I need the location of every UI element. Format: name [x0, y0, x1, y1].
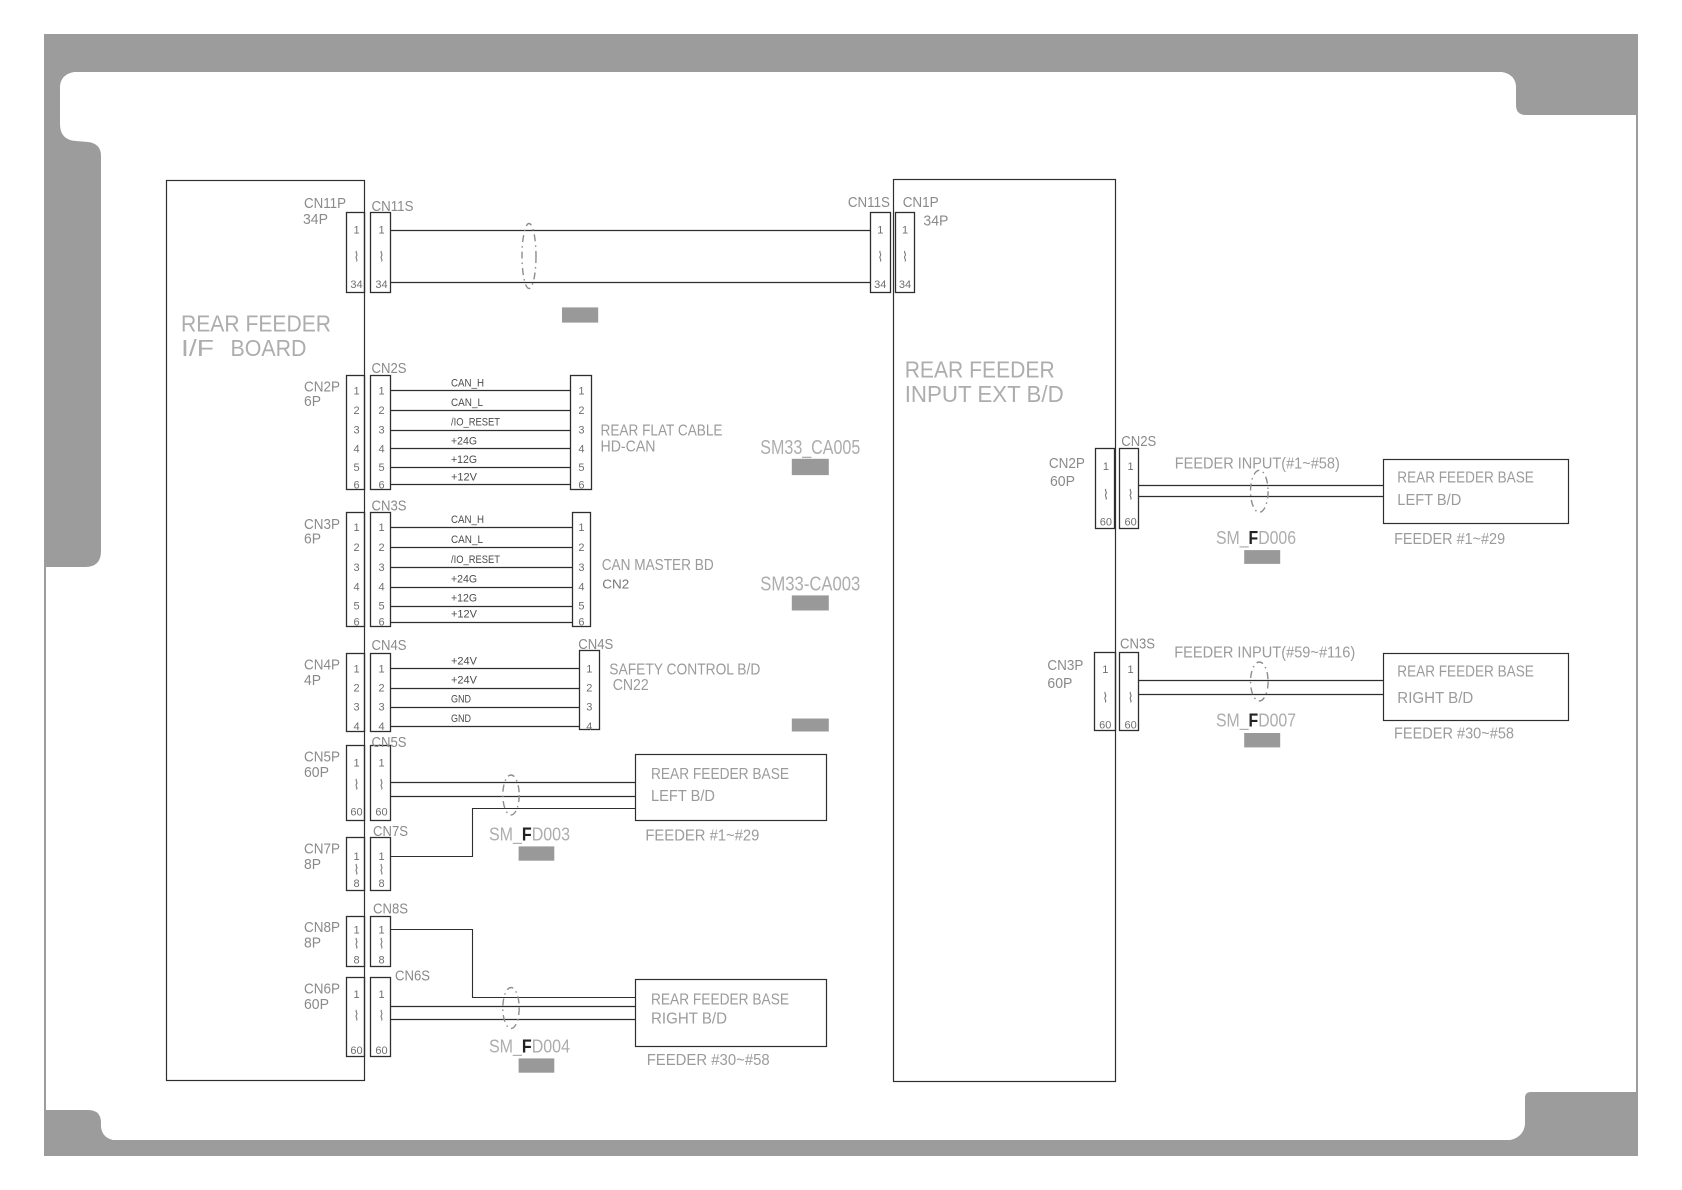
svg-text:1: 1 — [353, 385, 359, 397]
svg-text:8P: 8P — [304, 856, 321, 873]
svg-text:CN4P: CN4P — [304, 656, 340, 673]
wire CN6S bus upper — [390, 1006, 635, 1008]
svg-text:REAR FEEDER BASE: REAR FEEDER BASE — [651, 992, 789, 1009]
wire CN3S pin4 net +24G — [390, 574, 572, 588]
wire CN7S feed to left base board — [390, 809, 635, 857]
svg-text:60P: 60P — [1050, 473, 1075, 490]
wire CN2S pin2 net CAN_L — [390, 397, 571, 411]
wire CN5S bus upper — [390, 782, 635, 784]
wire CN2S pin4 net +24G — [390, 436, 571, 449]
board REAR FEEDER INPUT EXT B/D outline — [894, 180, 1116, 1082]
cable bundle marker SM_FD006 — [1251, 470, 1269, 512]
svg-text:34: 34 — [899, 279, 911, 291]
board REAR FEEDER I/F BOARD outline — [167, 181, 365, 1081]
svg-text:3: 3 — [353, 425, 359, 437]
label REAR FEEDER INPUT EXT B/D title — [905, 357, 1064, 408]
svg-text:4: 4 — [378, 444, 384, 456]
svg-text:SM33-CA003: SM33-CA003 — [760, 574, 860, 596]
svg-text:+24V: +24V — [451, 675, 478, 687]
connector CN7P (8P) — [304, 838, 365, 891]
svg-text:8P: 8P — [304, 935, 321, 952]
label REAR FEEDER I/F BOARD title — [181, 311, 331, 362]
cable bundle marker SM_FD004 — [503, 988, 519, 1029]
svg-text:4: 4 — [378, 582, 384, 594]
connector CN3S — [371, 497, 407, 628]
svg-text:60P: 60P — [304, 996, 329, 1013]
svg-text:FEEDER #1~#29: FEEDER #1~#29 — [1394, 531, 1505, 548]
svg-text:LEFT B/D: LEFT B/D — [651, 788, 715, 805]
svg-text:1: 1 — [378, 522, 384, 534]
svg-text:BOARD: BOARD — [231, 335, 307, 361]
wire CN11S pin1 - CN11S pin1 — [390, 230, 870, 232]
svg-text:HD-CAN: HD-CAN — [601, 438, 656, 455]
svg-text:+24G: +24G — [451, 574, 477, 586]
connector CN6S — [371, 967, 431, 1057]
svg-text:LEFT B/D: LEFT B/D — [1397, 492, 1461, 509]
svg-text:4: 4 — [586, 721, 592, 733]
svg-text:60P: 60P — [1047, 675, 1072, 692]
svg-text:5: 5 — [578, 601, 584, 613]
board REAR FEEDER BASE LEFT B/D box right — [1384, 460, 1569, 524]
svg-text:CN8S: CN8S — [373, 901, 408, 918]
svg-text:+12V: +12V — [451, 609, 478, 621]
wire CN2S pin5 net +12G — [390, 454, 571, 468]
svg-text:60: 60 — [375, 1045, 387, 1057]
connector CN3P (6P) — [304, 513, 365, 629]
svg-text:6: 6 — [578, 617, 584, 629]
board REAR FEEDER BASE RIGHT B/D box — [636, 980, 827, 1047]
svg-text:2: 2 — [353, 405, 359, 417]
label CAN MASTER BD / CN2 — [602, 557, 714, 592]
svg-text:3: 3 — [353, 562, 359, 574]
connector CN2P (60P) right board — [1049, 449, 1115, 529]
svg-text:REAR FLAT CABLE: REAR FLAT CABLE — [601, 422, 723, 439]
svg-text:34: 34 — [874, 279, 886, 291]
svg-text:4: 4 — [353, 582, 359, 594]
svg-text:4: 4 — [353, 721, 359, 733]
svg-text:GND: GND — [451, 694, 471, 706]
svg-text:CN2P: CN2P — [1049, 455, 1085, 472]
connector CN7S — [371, 823, 409, 891]
board REAR FEEDER BASE LEFT B/D box — [636, 755, 827, 821]
svg-text:60: 60 — [350, 1045, 362, 1057]
svg-text:INPUT EXT B/D: INPUT EXT B/D — [905, 381, 1064, 407]
svg-text:1: 1 — [1102, 664, 1108, 676]
svg-text:GND: GND — [451, 713, 471, 725]
connector CN11P (34P) left board — [303, 195, 365, 293]
wire CN4S pin4 net GND — [390, 713, 579, 727]
svg-text:CN7P: CN7P — [304, 841, 340, 858]
svg-text:6: 6 — [578, 480, 584, 492]
svg-text:5: 5 — [353, 601, 359, 613]
svg-text:60P: 60P — [304, 764, 329, 781]
svg-text:CN1P: CN1P — [903, 194, 939, 211]
svg-text:3: 3 — [378, 425, 384, 437]
svg-text:1: 1 — [353, 851, 359, 863]
svg-text:+24V: +24V — [451, 655, 478, 667]
svg-text:+12V: +12V — [451, 472, 478, 484]
svg-text:1: 1 — [1128, 461, 1134, 473]
svg-text:5: 5 — [378, 601, 384, 613]
svg-text:2: 2 — [353, 683, 359, 695]
svg-text:1: 1 — [1128, 664, 1134, 676]
svg-text:1: 1 — [902, 225, 908, 237]
svg-text:RIGHT B/D: RIGHT B/D — [651, 1011, 727, 1028]
svg-text:SM33_CA005: SM33_CA005 — [760, 437, 860, 459]
svg-text:2: 2 — [586, 683, 592, 695]
svg-text:6P: 6P — [304, 393, 321, 410]
svg-text:CAN MASTER BD: CAN MASTER BD — [602, 557, 714, 574]
connector CN4P (4P) — [304, 654, 365, 734]
connector CN3P (60P) right board — [1047, 653, 1115, 732]
svg-text:FEEDER #1~#29: FEEDER #1~#29 — [645, 827, 759, 844]
svg-text:CN3P: CN3P — [1047, 657, 1083, 674]
svg-text:60: 60 — [1100, 517, 1112, 529]
label swatch SM33-CA003 — [792, 595, 829, 610]
svg-text:3: 3 — [353, 702, 359, 714]
svg-text:1: 1 — [353, 522, 359, 534]
svg-text:CAN_L: CAN_L — [451, 534, 483, 546]
label swatch SM_FD007 — [1244, 733, 1280, 747]
label SAFETY CONTROL B/D CN22 — [609, 661, 760, 694]
wire CN5S bus lower — [390, 796, 635, 798]
svg-text:1: 1 — [378, 385, 384, 397]
label swatch safety cable — [792, 719, 829, 732]
svg-text:FEEDER INPUT(#59~#116): FEEDER INPUT(#59~#116) — [1174, 645, 1355, 662]
svg-text:CN4S: CN4S — [372, 637, 407, 654]
svg-text:1: 1 — [353, 663, 359, 675]
label swatch CN11 cable — [562, 307, 598, 322]
connector CN11S right side — [848, 194, 891, 292]
svg-text:6: 6 — [378, 617, 384, 629]
svg-text:CN5P: CN5P — [304, 748, 340, 765]
wire CN6S bus lower — [390, 1019, 635, 1021]
svg-text:1: 1 — [353, 758, 359, 770]
svg-text:2: 2 — [578, 405, 584, 417]
svg-text:1: 1 — [378, 989, 384, 1001]
svg-text:CN2S: CN2S — [372, 360, 407, 377]
svg-text:60: 60 — [1124, 720, 1136, 732]
svg-text:SM_FD004: SM_FD004 — [489, 1036, 570, 1057]
svg-text:2: 2 — [378, 683, 384, 695]
svg-text:3: 3 — [578, 425, 584, 437]
cable bundle marker SM_FD007 — [1251, 662, 1269, 701]
svg-text:8: 8 — [353, 954, 359, 966]
connector CN2P (6P) — [304, 376, 365, 492]
svg-text:CN2: CN2 — [602, 577, 629, 592]
svg-text:2: 2 — [378, 542, 384, 554]
wire CN3S pin2 net CAN_L — [390, 534, 572, 547]
svg-text:1: 1 — [586, 663, 592, 675]
svg-text:CN5S: CN5S — [372, 734, 407, 751]
connector header REAR FLAT CABLE side — [571, 376, 592, 492]
svg-text:+12G: +12G — [451, 593, 477, 605]
svg-text:CN11P: CN11P — [304, 195, 346, 212]
svg-text:CAN_H: CAN_H — [451, 514, 484, 526]
svg-text:4: 4 — [353, 444, 359, 456]
connector CN2S right board — [1120, 433, 1157, 529]
svg-text:1: 1 — [578, 522, 584, 534]
svg-text:60: 60 — [1099, 720, 1111, 732]
wire CN3S pin6 net +12V — [390, 609, 572, 623]
svg-text:SAFETY CONTROL B/D: SAFETY CONTROL B/D — [609, 661, 760, 678]
svg-text:8: 8 — [378, 954, 384, 966]
svg-text:CN6S: CN6S — [395, 967, 430, 984]
wire CN4S pin2 net +24V — [390, 675, 579, 689]
svg-text:1: 1 — [378, 924, 384, 936]
svg-text:1: 1 — [353, 225, 359, 237]
svg-text:1: 1 — [378, 758, 384, 770]
label REAR FLAT CABLE HD-CAN — [601, 422, 723, 455]
svg-text:34P: 34P — [923, 212, 948, 229]
svg-text:4: 4 — [378, 721, 384, 733]
connector CN8S — [371, 901, 409, 967]
svg-text:34: 34 — [350, 279, 362, 291]
label swatch SM_FD003 — [519, 846, 555, 860]
svg-text:CN8P: CN8P — [304, 919, 340, 936]
svg-text:+12G: +12G — [451, 454, 477, 466]
svg-text:I/F: I/F — [181, 335, 214, 361]
connector CN6P (60P) — [304, 978, 365, 1058]
svg-text:2: 2 — [378, 405, 384, 417]
svg-text:FEEDER #30~#58: FEEDER #30~#58 — [647, 1052, 770, 1069]
svg-text:1: 1 — [1103, 461, 1109, 473]
connector CN4S — [371, 637, 407, 733]
svg-text:CN3S: CN3S — [1120, 636, 1155, 653]
svg-text:FEEDER #30~#58: FEEDER #30~#58 — [1394, 725, 1514, 742]
svg-text:3: 3 — [586, 702, 592, 714]
wire CN2S pin1 net CAN_H — [390, 377, 571, 390]
svg-text:1: 1 — [353, 989, 359, 1001]
svg-text:8: 8 — [378, 878, 384, 890]
svg-text:1: 1 — [353, 924, 359, 936]
svg-text:REAR FEEDER BASE: REAR FEEDER BASE — [1397, 663, 1534, 680]
connector CN5S — [371, 734, 407, 821]
svg-text:5: 5 — [353, 462, 359, 474]
connector CN5P (60P) — [304, 746, 365, 821]
svg-text:CN3S: CN3S — [372, 497, 407, 514]
wire CN4S pin3 net GND — [390, 694, 579, 708]
svg-text:60: 60 — [350, 807, 362, 819]
svg-text:4: 4 — [578, 444, 584, 456]
svg-text:/IO_RESET: /IO_RESET — [451, 417, 500, 429]
svg-text:34: 34 — [375, 279, 387, 291]
connector CN8P (8P) — [304, 917, 365, 967]
svg-text:CN6P: CN6P — [304, 981, 340, 998]
label swatch SM_FD004 — [519, 1058, 555, 1072]
svg-text:SM_FD006: SM_FD006 — [1216, 528, 1296, 549]
svg-text:2: 2 — [353, 542, 359, 554]
svg-text:REAR FEEDER: REAR FEEDER — [905, 357, 1055, 383]
svg-text:CN2S: CN2S — [1121, 433, 1156, 450]
wire CN4S pin1 net +24V — [390, 655, 579, 668]
svg-text:CAN_L: CAN_L — [451, 397, 483, 409]
connector CN1P (34P) — [896, 194, 949, 292]
cable bundle marker SM_FD003 — [503, 775, 519, 815]
svg-text:REAR FEEDER: REAR FEEDER — [181, 311, 331, 337]
wire CN2S feeder input upper — [1139, 485, 1384, 487]
svg-text:SM_FD007: SM_FD007 — [1216, 711, 1296, 732]
svg-text:REAR FEEDER BASE: REAR FEEDER BASE — [1397, 470, 1534, 487]
svg-text:RIGHT B/D: RIGHT B/D — [1397, 690, 1473, 707]
connector CN11S left board side — [371, 198, 414, 293]
wire CN2S feeder input lower — [1139, 496, 1384, 498]
svg-text:1: 1 — [378, 663, 384, 675]
svg-text:5: 5 — [578, 462, 584, 474]
svg-text:60: 60 — [375, 807, 387, 819]
wire CN3S pin1 net CAN_H — [390, 514, 572, 528]
connector header CAN MASTER BD side — [573, 513, 591, 629]
svg-text:1: 1 — [877, 225, 883, 237]
wire CN8S feed to right base board — [390, 930, 635, 998]
svg-text:4P: 4P — [304, 672, 321, 689]
svg-text:60: 60 — [1124, 517, 1136, 529]
svg-text:CN7S: CN7S — [373, 823, 408, 840]
svg-text:CN22: CN22 — [613, 677, 649, 694]
connector CN3S right board — [1120, 636, 1156, 732]
svg-text:+24G: +24G — [451, 436, 477, 448]
svg-text:6: 6 — [378, 480, 384, 492]
svg-text:5: 5 — [378, 462, 384, 474]
svg-text:6P: 6P — [304, 531, 321, 548]
svg-text:1: 1 — [378, 225, 384, 237]
wire CN3S pin3 net /IO_RESET — [390, 554, 572, 567]
svg-text:CN11S: CN11S — [848, 194, 890, 211]
svg-text:6: 6 — [353, 480, 359, 492]
svg-text:3: 3 — [378, 702, 384, 714]
svg-text:1: 1 — [378, 851, 384, 863]
svg-text:REAR FEEDER BASE: REAR FEEDER BASE — [651, 766, 789, 783]
board REAR FEEDER BASE RIGHT B/D box right — [1384, 654, 1569, 721]
svg-text:CAN_H: CAN_H — [451, 377, 484, 389]
svg-text:SM_FD003: SM_FD003 — [489, 825, 570, 846]
svg-text:8: 8 — [353, 878, 359, 890]
svg-text:2: 2 — [578, 542, 584, 554]
wire CN11S pin34 - CN11S pin34 — [390, 282, 870, 284]
svg-text:3: 3 — [578, 562, 584, 574]
svg-text:CN11S: CN11S — [372, 198, 414, 215]
wire CN3S feeder input lower — [1139, 694, 1384, 696]
label swatch SM33_CA005 — [792, 459, 829, 475]
connector CN2S — [371, 360, 407, 492]
svg-text:4: 4 — [578, 582, 584, 594]
svg-text:/IO_RESET: /IO_RESET — [451, 554, 500, 566]
svg-text:6: 6 — [353, 617, 359, 629]
svg-text:3: 3 — [378, 562, 384, 574]
wire CN2S pin6 net +12V — [390, 472, 571, 485]
wire CN3S feeder input upper — [1139, 680, 1384, 682]
label swatch SM_FD006 — [1244, 550, 1280, 564]
wire CN3S pin5 net +12G — [390, 593, 572, 607]
cable bundle marker (CN11 ribbon) — [522, 224, 536, 289]
svg-text:1: 1 — [578, 385, 584, 397]
wire CN2S pin3 net /IO_RESET — [390, 417, 571, 431]
connector header CN4S safety control side — [578, 636, 613, 733]
svg-text:34P: 34P — [303, 211, 328, 228]
